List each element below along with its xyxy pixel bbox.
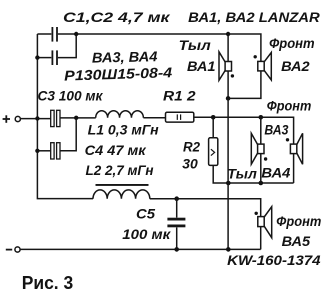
wire minus rail: [20, 248, 261, 250]
capacitor C3: [51, 110, 60, 126]
node C2 left junction: [35, 55, 39, 59]
svg-text:ВА1, ВА2 LANZAR: ВА1, ВА2 LANZAR: [188, 10, 320, 26]
node BA4 bottom junction: [259, 181, 264, 186]
svg-text:ВА3: ВА3: [264, 122, 288, 138]
svg-text:R1 2: R1 2: [163, 88, 196, 104]
svg-text:100 мк: 100 мк: [122, 227, 171, 243]
resistor R1: [166, 112, 194, 122]
svg-text:ВА4: ВА4: [261, 165, 290, 181]
svg-text:30: 30: [182, 157, 198, 173]
wire L1 to R1: [143, 117, 165, 119]
svg-text:Р130Ш15-08-4: Р130Ш15-08-4: [64, 65, 173, 84]
node C3 right junction: [74, 116, 78, 120]
speaker BA2: [254, 53, 272, 81]
svg-text:ВА3, ВА4: ВА3, ВА4: [92, 49, 158, 66]
wire L2 to BA5 corner: [150, 199, 261, 217]
svg-text:ВА5: ВА5: [282, 234, 312, 250]
wire top rail from C1 to BA2 corner: [58, 34, 261, 62]
svg-text:С3 100 мк: С3 100 мк: [38, 88, 104, 104]
svg-text:С4 47 мк: С4 47 мк: [85, 143, 147, 159]
svg-text:Фронт: Фронт: [267, 99, 312, 115]
inductor L1: [96, 111, 144, 118]
inductor L2 core bar: [96, 184, 149, 186]
wire BA3 below box: [293, 154, 295, 183]
node C5 top junction: [174, 196, 179, 201]
wire C3 to L1: [60, 117, 95, 119]
svg-text:С1,С2 4,7 мк: С1,С2 4,7 мк: [63, 10, 170, 26]
svg-text:ВА2: ВА2: [281, 59, 310, 75]
wire R2 bottom to BA3-BA4 bottom line: [213, 165, 293, 183]
svg-text:Рис. 3: Рис. 3: [22, 272, 73, 293]
speaker BA5: [255, 207, 272, 238]
node BA4 top junction: [259, 115, 264, 120]
svg-text:L1 0,3 мГн: L1 0,3 мГн: [88, 122, 159, 138]
wire return to minus rail: [227, 98, 229, 249]
svg-text:R2: R2: [183, 140, 200, 156]
svg-text:С5: С5: [136, 207, 156, 223]
wire plus input: [21, 118, 51, 120]
node BA1 bottom junction: [226, 96, 231, 101]
speaker BA1: [219, 52, 234, 81]
node return junction on bottom line: [226, 181, 231, 186]
svg-text:Фронт: Фронт: [276, 214, 321, 230]
node BA1 top junction: [226, 32, 230, 36]
resistor R2: [209, 117, 218, 165]
wire left rail down to bottom-left corner and to L2: [37, 34, 93, 199]
capacitor C4: [37, 119, 76, 159]
inductor L2: [93, 190, 150, 199]
node plus input junction: [35, 116, 39, 120]
speaker BA3: [286, 133, 303, 164]
node return rail junction: [226, 247, 231, 252]
plus terminal: [3, 115, 21, 123]
svg-text:ВА1: ВА1: [187, 59, 216, 75]
wire BA5 bottom: [260, 227, 262, 250]
wire BA1 drop from top rail: [227, 34, 229, 98]
svg-text:KW-160-1374: KW-160-1374: [227, 253, 321, 269]
svg-text:Тыл: Тыл: [179, 38, 211, 54]
svg-text:Фронт: Фронт: [269, 36, 315, 52]
wire R1 to BA3 branch corner: [194, 117, 294, 144]
wire BA4 drop: [260, 117, 262, 183]
node C4 left junction: [35, 149, 39, 153]
svg-text:Тыл: Тыл: [227, 166, 257, 182]
wire BA2 bottom connector: [228, 71, 261, 99]
minus terminal: [6, 247, 20, 252]
node R1-R2 junction: [211, 115, 216, 120]
capacitor C2: [37, 34, 76, 65]
speaker BA4: [251, 133, 267, 164]
capacitor C5: [167, 199, 185, 250]
node C1-C2 top junction: [74, 32, 78, 36]
capacitor C1: [52, 27, 57, 42]
node C5 bottom junction: [174, 247, 179, 252]
svg-text:L2 2,7 мГн: L2 2,7 мГн: [86, 163, 154, 179]
wire top rail left lead to C1: [37, 33, 51, 35]
